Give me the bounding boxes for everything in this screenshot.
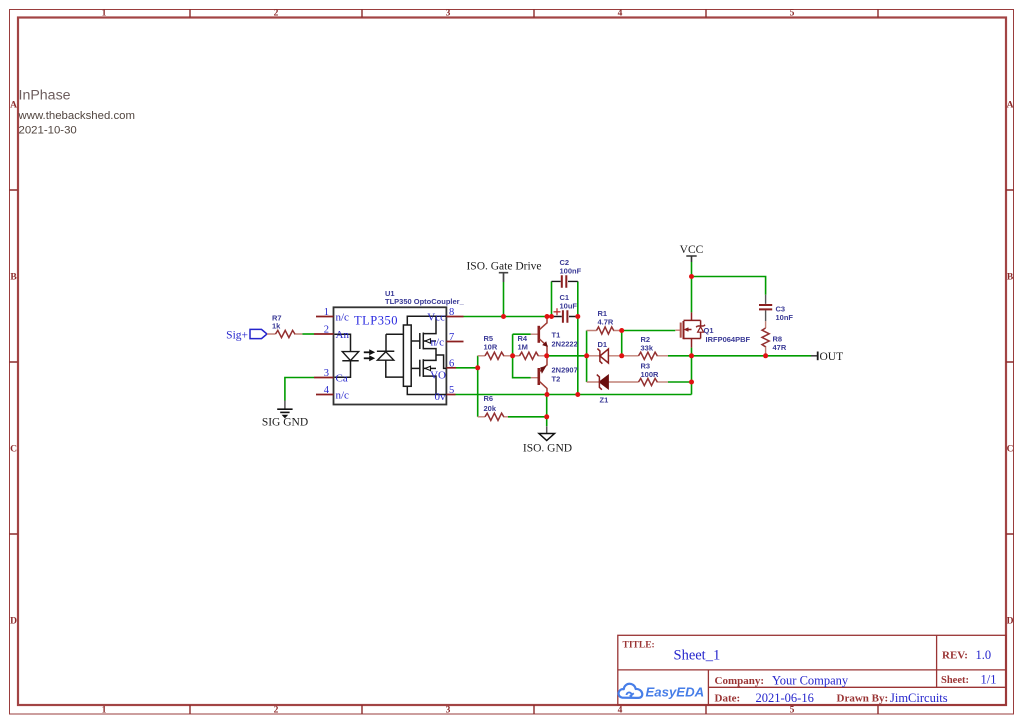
ground ISO. GND xyxy=(523,426,572,454)
svg-text:47R: 47R xyxy=(773,343,787,352)
svg-text:1/1: 1/1 xyxy=(981,673,997,687)
svg-text:D: D xyxy=(1007,617,1014,627)
svg-text:TLP350: TLP350 xyxy=(354,314,398,328)
zener Z1 xyxy=(587,375,639,405)
junction R5/R4/base xyxy=(510,353,515,358)
svg-text:n/c: n/c xyxy=(431,336,445,348)
junction R8 bottom xyxy=(763,353,768,358)
svg-text:3: 3 xyxy=(324,368,329,379)
junction gate-drive/Vcc row xyxy=(501,314,506,319)
capacitor C2 xyxy=(552,258,582,288)
svg-text:Vcc: Vcc xyxy=(427,311,445,323)
svg-text:ISO. GND: ISO. GND xyxy=(523,442,572,454)
svg-text:n/c: n/c xyxy=(336,389,350,401)
svg-text:Date:: Date: xyxy=(715,693,741,705)
svg-text:4.7R: 4.7R xyxy=(598,317,614,326)
svg-text:1k: 1k xyxy=(272,322,281,331)
wire D1 block left vertical xyxy=(586,331,588,383)
svg-text:JimCircuits: JimCircuits xyxy=(890,691,948,705)
svg-text:REV:: REV: xyxy=(942,650,968,662)
MOSFET Q1 IRFP064PBF xyxy=(675,312,750,347)
svg-text:5: 5 xyxy=(449,385,454,396)
svg-text:2N2907: 2N2907 xyxy=(552,366,578,375)
transistor T1 2N2222 NPN xyxy=(513,317,578,356)
svg-text:3: 3 xyxy=(446,9,451,19)
junction C1/C2 left xyxy=(549,314,554,319)
junction pin6 tap xyxy=(475,365,480,370)
junction R6/ISO GND xyxy=(544,414,549,419)
svg-text:2: 2 xyxy=(324,325,329,336)
power VCC xyxy=(680,244,704,262)
junction VCC branch xyxy=(689,274,694,279)
svg-text:R4: R4 xyxy=(518,334,528,343)
svg-text:Sheet:: Sheet: xyxy=(941,675,969,686)
junction D1 right xyxy=(619,353,624,358)
svg-text:3: 3 xyxy=(446,706,451,716)
svg-text:10nF: 10nF xyxy=(776,313,794,322)
resistor R6 xyxy=(478,394,508,420)
wire R6 to ISO GND junction xyxy=(508,395,547,427)
svg-text:IRFP064PBF: IRFP064PBF xyxy=(706,335,751,344)
svg-text:5: 5 xyxy=(790,706,795,716)
svg-text:TITLE:: TITLE: xyxy=(623,641,655,651)
svg-text:B: B xyxy=(10,273,17,283)
svg-text:A: A xyxy=(1007,101,1014,111)
svg-text:Z1: Z1 xyxy=(600,396,609,405)
svg-text:1.0: 1.0 xyxy=(976,648,992,662)
svg-text:InPhase: InPhase xyxy=(19,88,71,104)
resistor R3 xyxy=(639,362,669,386)
svg-text:n/c: n/c xyxy=(336,311,350,323)
svg-text:EasyEDA: EasyEDA xyxy=(646,685,705,700)
wire VCC to Q1 drain xyxy=(691,262,693,312)
wire C2/C1 right vertical xyxy=(577,281,579,394)
svg-text:VO: VO xyxy=(430,369,446,381)
svg-text:7: 7 xyxy=(449,332,454,343)
resistor R1 xyxy=(587,309,622,334)
svg-text:8: 8 xyxy=(449,307,454,318)
resistor R8 vertical xyxy=(762,321,787,356)
svg-text:D1: D1 xyxy=(598,340,608,349)
svg-text:100nF: 100nF xyxy=(560,266,582,275)
svg-text:Sheet_1: Sheet_1 xyxy=(674,648,721,664)
capacitor C1 polarized xyxy=(552,293,578,323)
svg-text:33k: 33k xyxy=(641,343,654,352)
pin names xyxy=(336,311,350,401)
resistor R5 xyxy=(478,334,513,359)
wire R1 to D1 vertical xyxy=(621,331,623,356)
svg-text:R6: R6 xyxy=(484,394,494,403)
wire C2 branch left xyxy=(551,281,553,316)
svg-text:Q1: Q1 xyxy=(704,326,714,335)
pin stubs xyxy=(314,317,464,395)
svg-text:T2: T2 xyxy=(552,375,561,384)
diode D1 xyxy=(587,340,622,364)
svg-text:VCC: VCC xyxy=(680,244,704,256)
svg-text:TLP350 OptoCoupler_: TLP350 OptoCoupler_ xyxy=(385,297,465,306)
junction D1 block left xyxy=(584,353,589,358)
svg-text:Ca: Ca xyxy=(336,372,348,384)
svg-text:An: An xyxy=(336,329,350,341)
ground SIG GND xyxy=(262,401,308,429)
wire U1 pin3 to SIG GND xyxy=(285,378,314,401)
junction Q1 source/OUT row xyxy=(689,353,694,358)
svg-text:1: 1 xyxy=(324,307,329,318)
svg-text:20k: 20k xyxy=(484,404,497,413)
svg-text:6: 6 xyxy=(449,358,454,369)
wire R1 right to gate xyxy=(622,330,676,332)
ANNOTATIONS top-left xyxy=(18,88,136,137)
wire Sig+ to R7 to U1 pin 2 xyxy=(302,333,314,335)
svg-text:4: 4 xyxy=(324,385,330,396)
svg-text:10uF: 10uF xyxy=(560,302,578,311)
svg-text:OUT: OUT xyxy=(820,351,844,363)
wire 0v row pin5 xyxy=(456,394,692,396)
svg-text:4: 4 xyxy=(618,9,623,19)
port OUT xyxy=(811,351,843,363)
capacitor C3 xyxy=(759,295,793,322)
svg-text:D: D xyxy=(10,617,17,627)
svg-text:0v: 0v xyxy=(435,391,447,403)
EasyEDA logo xyxy=(619,684,705,700)
svg-text:Sig+: Sig+ xyxy=(226,330,248,342)
junction T2 collector/0v row xyxy=(545,392,550,397)
svg-text:1: 1 xyxy=(102,706,107,716)
svg-text:SIG GND: SIG GND xyxy=(262,417,308,429)
resistor R2 xyxy=(622,335,668,359)
TITLEBLOCK xyxy=(618,635,1006,705)
wire pin6 to R5/R6 vertical xyxy=(456,356,478,417)
svg-text:Your Company: Your Company xyxy=(772,674,849,688)
wire middle row R4 to D1 block xyxy=(547,355,587,357)
svg-text:1M: 1M xyxy=(518,343,528,352)
transistor T2 2N2907 PNP xyxy=(513,356,578,395)
svg-text:Company:: Company: xyxy=(715,675,765,687)
svg-text:ISO. Gate Drive: ISO. Gate Drive xyxy=(466,261,541,273)
svg-text:2: 2 xyxy=(274,9,279,19)
svg-text:100R: 100R xyxy=(641,370,660,379)
svg-text:www.thebackshed.com: www.thebackshed.com xyxy=(18,110,136,122)
svg-text:T1: T1 xyxy=(552,331,561,340)
junction T1 collector xyxy=(545,314,550,319)
svg-text:2021-06-16: 2021-06-16 xyxy=(756,691,814,705)
svg-text:10R: 10R xyxy=(484,343,498,352)
opto-coupler U1 TLP350 xyxy=(314,289,465,405)
svg-text:C: C xyxy=(10,445,17,455)
junction T1 emitter/T2 emitter xyxy=(544,353,549,358)
port ISO. Gate Drive xyxy=(466,261,541,283)
svg-text:B: B xyxy=(1007,273,1014,283)
svg-text:R5: R5 xyxy=(484,334,494,343)
junction R1 right xyxy=(619,328,624,333)
svg-text:2: 2 xyxy=(274,706,279,716)
wire R3 right vertical to 0v row xyxy=(668,382,692,395)
svg-text:5: 5 xyxy=(790,9,795,19)
resistor R4 xyxy=(513,334,547,359)
junction R3 right xyxy=(689,380,694,385)
wire ISO gate drive drop xyxy=(503,282,505,317)
svg-text:C: C xyxy=(1007,445,1014,455)
wire R2 to OUT row xyxy=(668,355,811,357)
svg-text:4: 4 xyxy=(618,706,623,716)
wire Q1 source vertical xyxy=(691,348,693,382)
resistor R7 xyxy=(267,314,302,338)
junction C-branch/0v row xyxy=(575,392,580,397)
input flag Sig+ xyxy=(226,329,267,341)
svg-text:Drawn By:: Drawn By: xyxy=(837,693,889,705)
pin numbers xyxy=(324,307,330,396)
svg-text:A: A xyxy=(10,101,17,111)
junction C1/C2 right xyxy=(575,314,580,319)
wire VCC to C3 xyxy=(692,277,766,295)
wire pin8 Vcc row xyxy=(464,316,552,318)
svg-text:2021-10-30: 2021-10-30 xyxy=(19,125,77,137)
svg-text:2N2222: 2N2222 xyxy=(552,340,578,349)
svg-text:1: 1 xyxy=(102,9,107,19)
